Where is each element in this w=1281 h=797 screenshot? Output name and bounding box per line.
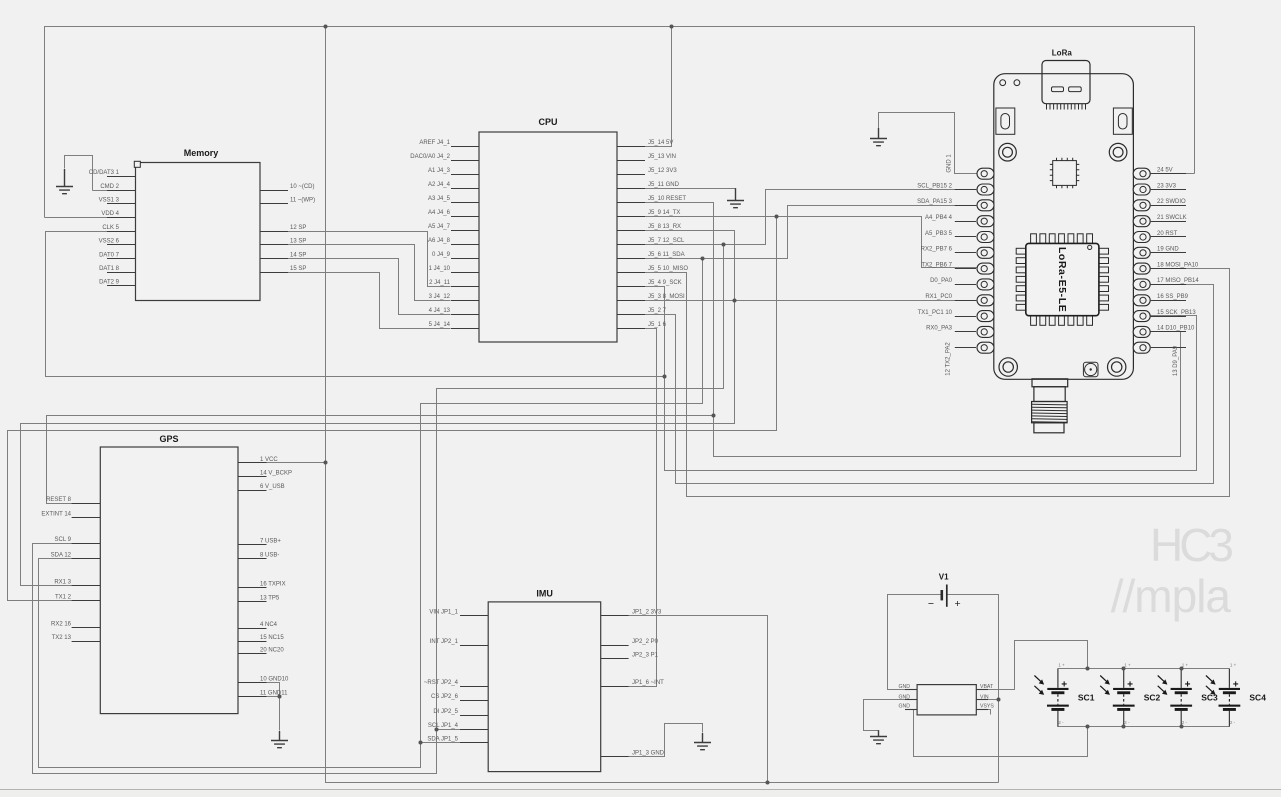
- wire memory CLK / SCK net: [46, 232, 665, 377]
- svg-text:J5_6 11_SDA: J5_6 11_SDA: [648, 252, 685, 258]
- wire CPU 7 to LoRa p17: [645, 285, 1214, 484]
- svg-text:JP2_3 P1: JP2_3 P1: [632, 653, 659, 659]
- svg-text:DAT1 8: DAT1 8: [99, 266, 120, 272]
- wire CPU 6 to IMU ~INT: [629, 329, 657, 687]
- svg-text:J5_10 RESET: J5_10 RESET: [648, 196, 686, 202]
- svg-text:J5_5 10_MISO: J5_5 10_MISO: [648, 266, 688, 272]
- svg-text:8 USB-: 8 USB-: [260, 552, 279, 558]
- solar cell SC2: [1123, 669, 1125, 727]
- svg-text:4 NC4: 4 NC4: [260, 622, 278, 628]
- svg-text://mpla: //mpla: [1111, 570, 1232, 622]
- svg-text:J5_9 14_TX: J5_9 14_TX: [648, 210, 680, 216]
- LoRa SMA antenna connector: [1032, 379, 1068, 387]
- svg-text:IMU: IMU: [536, 589, 553, 599]
- LoRa board left slot: [996, 108, 1015, 134]
- svg-text:CMD 2: CMD 2: [100, 184, 119, 190]
- ground near LoRa pin1: [870, 128, 887, 146]
- wire GPS VCC branch: [239, 462, 326, 464]
- wire SCL net CPU to LoRa p2: [645, 190, 977, 245]
- svg-text:A2 J4_4: A2 J4_4: [428, 182, 451, 188]
- svg-text:10 ~(CD): 10 ~(CD): [290, 184, 315, 190]
- LoRa small chip: [1053, 161, 1077, 186]
- svg-text:TX1 2: TX1 2: [55, 595, 72, 601]
- svg-text:2 -: 2 -: [1124, 720, 1130, 725]
- wire GPS GND10 GND11 to ground: [239, 683, 280, 731]
- ground near power block: [870, 730, 887, 744]
- svg-text:GND: GND: [898, 704, 910, 710]
- wire SCK net CPU 9_SCK vertical to LoRa SCK: [645, 287, 1197, 471]
- wire RX net CPU 13_RX to GPS RX1: [21, 231, 735, 586]
- wire CPU GND to ground: [645, 188, 736, 190]
- svg-text:D0_PA0: D0_PA0: [930, 278, 953, 284]
- svg-text:GND: GND: [898, 694, 910, 700]
- svg-text:Memory: Memory: [184, 148, 219, 158]
- wire memory 15 SP to CPU 5 J4_14: [261, 273, 451, 329]
- svg-text:1 VCC: 1 VCC: [260, 457, 278, 463]
- svg-text:11 ~(WP): 11 ~(WP): [290, 198, 315, 204]
- wire IMU ~INT stub link: [601, 686, 629, 688]
- svg-text:1 J4_10: 1 J4_10: [429, 266, 451, 272]
- LoRa-E5-LE chip U1: [1031, 234, 1037, 244]
- wire solar bottom rail: [1058, 726, 1230, 728]
- wire CPU 10_MISO to LoRa p18: [645, 269, 1230, 497]
- ground near IMU: [694, 733, 711, 750]
- svg-text:RX2 16: RX2 16: [51, 621, 72, 627]
- wire power net top rail: [45, 27, 1195, 218]
- svg-text:4 J4_13: 4 J4_13: [429, 308, 451, 314]
- svg-text:J5_12 3V3: J5_12 3V3: [648, 168, 677, 174]
- GPS block: [100, 447, 238, 714]
- svg-text:HC3: HC3: [1150, 519, 1232, 571]
- svg-text:J5_13 VIN: J5_13 VIN: [648, 154, 676, 160]
- svg-text:A4_PB4 4: A4_PB4 4: [925, 215, 953, 221]
- svg-text:VDD 4: VDD 4: [101, 211, 119, 217]
- svg-text:CLK 5: CLK 5: [102, 225, 119, 231]
- svg-text:20 NC20: 20 NC20: [260, 648, 284, 654]
- svg-text:A6 J4_8: A6 J4_8: [428, 238, 451, 244]
- wire memory CMD pin: [93, 190, 136, 192]
- svg-text:JP1_3 GND: JP1_3 GND: [632, 750, 665, 756]
- svg-text:DAC0/A0 J4_2: DAC0/A0 J4_2: [410, 154, 450, 160]
- svg-text:TX2 13: TX2 13: [52, 635, 72, 641]
- LoRa board small circles: [1000, 80, 1006, 86]
- wire SDA net CPU to LoRa p3: [645, 206, 977, 259]
- svg-text:18 MOSI_PA10: 18 MOSI_PA10: [1157, 262, 1199, 268]
- svg-text:SCL_PB15 2: SCL_PB15 2: [917, 183, 952, 189]
- svg-text:24 5V: 24 5V: [1157, 168, 1173, 174]
- wire CPU 5V branch: [645, 27, 672, 147]
- svg-text:RX1_PC0: RX1_PC0: [925, 294, 952, 300]
- svg-text:2 -: 2 -: [1230, 720, 1236, 725]
- svg-text:20 RST: 20 RST: [1157, 231, 1178, 237]
- CPU block: [479, 132, 617, 342]
- svg-text:16 TXPIX: 16 TXPIX: [260, 581, 286, 587]
- LoRa USB connector: [1042, 61, 1090, 104]
- svg-text:19 GND: 19 GND: [1157, 247, 1179, 253]
- svg-text:VSYS: VSYS: [980, 704, 994, 710]
- svg-text:3 J4_12: 3 J4_12: [429, 294, 451, 300]
- svg-text:EXTINT 14: EXTINT 14: [41, 512, 71, 518]
- svg-text:A3 J4_5: A3 J4_5: [428, 196, 451, 202]
- LoRa board right slot: [1113, 108, 1132, 134]
- svg-text:J5_11 GND: J5_11 GND: [648, 182, 680, 188]
- wire VBAT to solar top rail: [977, 641, 1088, 690]
- svg-text:15 SP: 15 SP: [290, 266, 306, 272]
- svg-text:12 SP: 12 SP: [290, 225, 306, 231]
- wire battery V1 loop right to VIN and bottom rail: [947, 595, 999, 783]
- svg-text:LoRa: LoRa: [1052, 49, 1073, 58]
- svg-text:TX1_PC1 10: TX1_PC1 10: [918, 310, 953, 316]
- wire battery V1 loop left: [888, 595, 942, 690]
- svg-text:1 +: 1 +: [1124, 663, 1131, 668]
- wire SDA IMU pin: [421, 742, 489, 744]
- wire VIN pin to battery vertical: [977, 699, 999, 701]
- svg-text:SC2: SC2: [1144, 693, 1161, 703]
- svg-text:JP2_2 P0: JP2_2 P0: [632, 639, 659, 645]
- svg-text:SDA_PA15 3: SDA_PA15 3: [917, 199, 953, 205]
- IMU block: [488, 602, 601, 772]
- svg-text:SDA JP1_5: SDA JP1_5: [427, 737, 458, 743]
- wire TX net CPU 14_TX to LoRa p7: [645, 217, 977, 268]
- svg-text:J5_8 13_RX: J5_8 13_RX: [648, 224, 681, 230]
- solar cell SC1: [1057, 669, 1059, 727]
- svg-text:1 +: 1 +: [1058, 663, 1065, 668]
- wire power GND3 loop under block to solar bottom rail: [914, 710, 1088, 757]
- solar cell SC4: [1228, 669, 1230, 727]
- ground near CPU: [727, 188, 744, 208]
- svg-text:J5_2 7: J5_2 7: [648, 308, 667, 314]
- svg-text:CD/DAT3 1: CD/DAT3 1: [89, 170, 120, 176]
- wire RESET branch to GPS: [47, 416, 714, 504]
- svg-text:GND 1: GND 1: [946, 154, 952, 173]
- battery V1: [940, 590, 943, 600]
- wire memory 13 SP to CPU 3 J4_12: [261, 245, 451, 301]
- svg-text:1 +: 1 +: [1230, 663, 1237, 668]
- wire power GND2 hook to ground: [864, 700, 918, 731]
- svg-text:SC4: SC4: [1249, 693, 1266, 703]
- svg-text:VSS1 3: VSS1 3: [99, 198, 120, 204]
- svg-text:12 TX2_PA2: 12 TX2_PA2: [946, 342, 952, 376]
- wire power net memory VDD branch: [45, 217, 136, 219]
- svg-text:2 -: 2 -: [1058, 720, 1064, 725]
- svg-text:DI JP2_5: DI JP2_5: [433, 709, 458, 715]
- LoRa pin pads right: [1133, 168, 1150, 179]
- svg-text:A5_PB3 5: A5_PB3 5: [925, 231, 953, 237]
- svg-text:RESET 8: RESET 8: [46, 497, 72, 503]
- svg-text:23 3V3: 23 3V3: [1157, 183, 1177, 189]
- svg-text:SC3: SC3: [1201, 693, 1218, 703]
- svg-text:15 SCK_PB13: 15 SCK_PB13: [1157, 310, 1196, 316]
- wire power net vertical x325 to bottom rail: [326, 27, 999, 783]
- LoRa pin stubs and labels: [955, 189, 976, 191]
- svg-text:2 -: 2 -: [1182, 720, 1188, 725]
- svg-text:SCL 9: SCL 9: [55, 537, 72, 543]
- svg-text:INT JP2_1: INT JP2_1: [430, 639, 459, 645]
- svg-text:21 SWCLK: 21 SWCLK: [1157, 215, 1187, 221]
- svg-text:22 SWDIO: 22 SWDIO: [1157, 199, 1186, 205]
- svg-text:A1 J4_3: A1 J4_3: [428, 168, 451, 174]
- wire memory CMD ground hook: [65, 156, 93, 191]
- wire IMU GND hook: [601, 724, 703, 757]
- svg-text:10 GND10: 10 GND10: [260, 676, 289, 682]
- wire SCL IMU pin: [437, 729, 489, 731]
- svg-text:J5_4 9_SCK: J5_4 9_SCK: [648, 280, 682, 286]
- svg-text:A4 J4_6: A4 J4_6: [428, 210, 451, 216]
- svg-text:A5 J4_7: A5 J4_7: [428, 224, 451, 230]
- svg-text:LoRa-E5-LE: LoRa-E5-LE: [1056, 247, 1068, 313]
- wire SDA branch to GPS and IMU: [39, 259, 703, 768]
- svg-text:13 TP5: 13 TP5: [260, 596, 280, 602]
- LoRa module board outline: [994, 74, 1134, 380]
- svg-text:RX0_PA3: RX0_PA3: [926, 326, 953, 332]
- svg-text:14 D10_PB10: 14 D10_PB10: [1157, 326, 1195, 332]
- svg-text:13 D9_PA9: 13 D9_PA9: [1173, 345, 1179, 376]
- LoRa mounting holes: [999, 143, 1017, 161]
- svg-text:14 V_BCKP: 14 V_BCKP: [260, 471, 292, 477]
- svg-text:RX2_PB7 6: RX2_PB7 6: [921, 247, 953, 253]
- svg-text:~RST JP2_4: ~RST JP2_4: [424, 680, 459, 686]
- wire LoRa 5V pin24 branch: [1151, 173, 1195, 175]
- svg-text:VBAT: VBAT: [980, 684, 994, 690]
- svg-text:SC1: SC1: [1078, 693, 1095, 703]
- wire TX branch to GPS TX1: [8, 217, 777, 601]
- svg-text:15 NC15: 15 NC15: [260, 635, 284, 641]
- memory block U-Memory: [136, 163, 261, 301]
- svg-text:2 J4_11: 2 J4_11: [429, 280, 451, 286]
- svg-text:DAT0 7: DAT0 7: [99, 252, 120, 258]
- svg-text:RX1 3: RX1 3: [54, 579, 71, 585]
- svg-text:GPS: GPS: [159, 434, 178, 444]
- wire RESET net CPU down to LoRa p14: [645, 203, 1181, 457]
- solar cell SC3: [1180, 669, 1182, 727]
- svg-text:TX2_PB6 7: TX2_PB6 7: [921, 262, 952, 268]
- svg-text:AREF J4_1: AREF J4_1: [419, 140, 450, 146]
- svg-text:V1: V1: [939, 572, 949, 581]
- wire memory 12 SP to CPU 2 J4_11: [261, 232, 451, 287]
- wire MOSI net CPU to LoRa p9: [645, 300, 977, 302]
- svg-text:13 SP: 13 SP: [290, 239, 306, 245]
- svg-text:6 V_USB: 6 V_USB: [260, 484, 285, 490]
- svg-text:11 GND11: 11 GND11: [260, 690, 288, 696]
- wire LoRa GND1 hook to ground: [879, 113, 977, 174]
- junction dots: [324, 25, 328, 29]
- svg-text:JP1_6 ~INT: JP1_6 ~INT: [632, 680, 664, 686]
- svg-text:CPU: CPU: [538, 117, 557, 127]
- power management block: [917, 685, 976, 715]
- svg-text:0 J4_9: 0 J4_9: [432, 252, 451, 258]
- wire IMU 3V3 branch: [601, 616, 768, 783]
- svg-text:1 +: 1 +: [1182, 663, 1189, 668]
- ground near memory: [56, 169, 73, 194]
- svg-text:5 J4_14: 5 J4_14: [429, 322, 451, 328]
- svg-text:17 MISO_PB14: 17 MISO_PB14: [1157, 278, 1199, 284]
- svg-text:−: −: [928, 598, 934, 610]
- svg-text:CS JP2_6: CS JP2_6: [431, 694, 459, 700]
- svg-text:J5_14 5V: J5_14 5V: [648, 140, 673, 146]
- svg-text:+: +: [955, 598, 961, 610]
- svg-text:VSS2 6: VSS2 6: [99, 239, 120, 245]
- wire memory 14 SP to CPU 4 J4_13: [261, 259, 451, 315]
- wire solar top rail: [1058, 668, 1230, 670]
- LoRa UFL connector: [1083, 362, 1098, 377]
- svg-text:14 SP: 14 SP: [290, 252, 306, 258]
- ground below GPS: [271, 731, 288, 748]
- svg-text:GND: GND: [898, 684, 910, 690]
- wire VSYS stub hook: [977, 710, 991, 715]
- bottom page boundary: [0, 791, 1281, 797]
- svg-text:VIN JP1_1: VIN JP1_1: [429, 609, 458, 615]
- svg-text:SDA 12: SDA 12: [51, 553, 72, 559]
- svg-text:J5_1 6: J5_1 6: [648, 322, 667, 328]
- svg-text:DAT2 9: DAT2 9: [99, 280, 120, 286]
- svg-text:J5_3 8_MOSI: J5_3 8_MOSI: [648, 294, 685, 300]
- LoRa pin pads left: [977, 168, 994, 179]
- svg-text:7 USB+: 7 USB+: [260, 539, 281, 545]
- svg-text:SCL JP1_4: SCL JP1_4: [428, 723, 459, 729]
- svg-text:JP1_2 3V3: JP1_2 3V3: [632, 609, 662, 615]
- wire SCL branch to GPS and IMU: [33, 245, 724, 774]
- svg-text:VIN: VIN: [980, 694, 989, 700]
- svg-text:16 SS_PB9: 16 SS_PB9: [1157, 294, 1189, 300]
- svg-text:J5_7 12_SCL: J5_7 12_SCL: [648, 238, 685, 244]
